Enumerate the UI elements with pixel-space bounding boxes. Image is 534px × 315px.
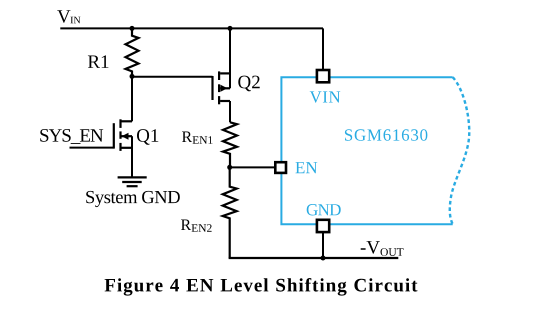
label SGM61630 [345,129,428,141]
wire rail to VIN pin [322,28,324,70]
ground System GND [118,177,147,186]
wire to EN pin [230,166,275,168]
wire Q2 drain to REN1 [229,101,231,122]
label EN [296,162,318,173]
pin EN [275,162,286,173]
IC box SGM61630 outline [281,77,452,224]
node junction GND drop on bottom rail [321,256,326,261]
node junction on rail at R1 [130,26,135,31]
label REN1 [182,132,213,144]
wire bottom rail to -VOUT [229,257,399,259]
transistor Q1 [114,119,132,151]
pin GND [317,220,329,232]
label -VOUT [361,241,404,256]
node junction REN1/REN2/EN [227,165,232,170]
label VIN [310,91,341,102]
node junction on rail at Q2 source [228,26,233,31]
label SYS_EN [40,129,103,144]
wire Q2 source from rail [229,28,231,88]
IC box dashed wavy right edge [450,77,469,224]
label System GND [86,191,180,207]
node junction below R1 [130,74,135,79]
resistor REN1 [223,122,237,167]
wire VIN rail [60,27,323,29]
transistor Q2 [213,71,231,104]
wire SYS_EN to Q1 gate [70,147,114,149]
pin VIN [317,70,329,82]
label R1 [88,55,109,68]
label Q1 [137,129,158,145]
resistor REN2 [223,167,237,258]
wire GND pin to bottom rail [322,233,324,258]
resistor R1 [126,28,139,76]
wire Q1 source to ground [131,136,133,177]
label GND [307,204,341,216]
wire R1 bottom to Q2 gate [132,76,213,78]
label REN2 [181,220,212,232]
caption Figure 4 EN Level Shifting Circuit [105,278,418,296]
label V_IN [57,10,80,23]
label Q2 [238,76,259,92]
wire R1 bottom to Q1 drain [131,76,133,121]
